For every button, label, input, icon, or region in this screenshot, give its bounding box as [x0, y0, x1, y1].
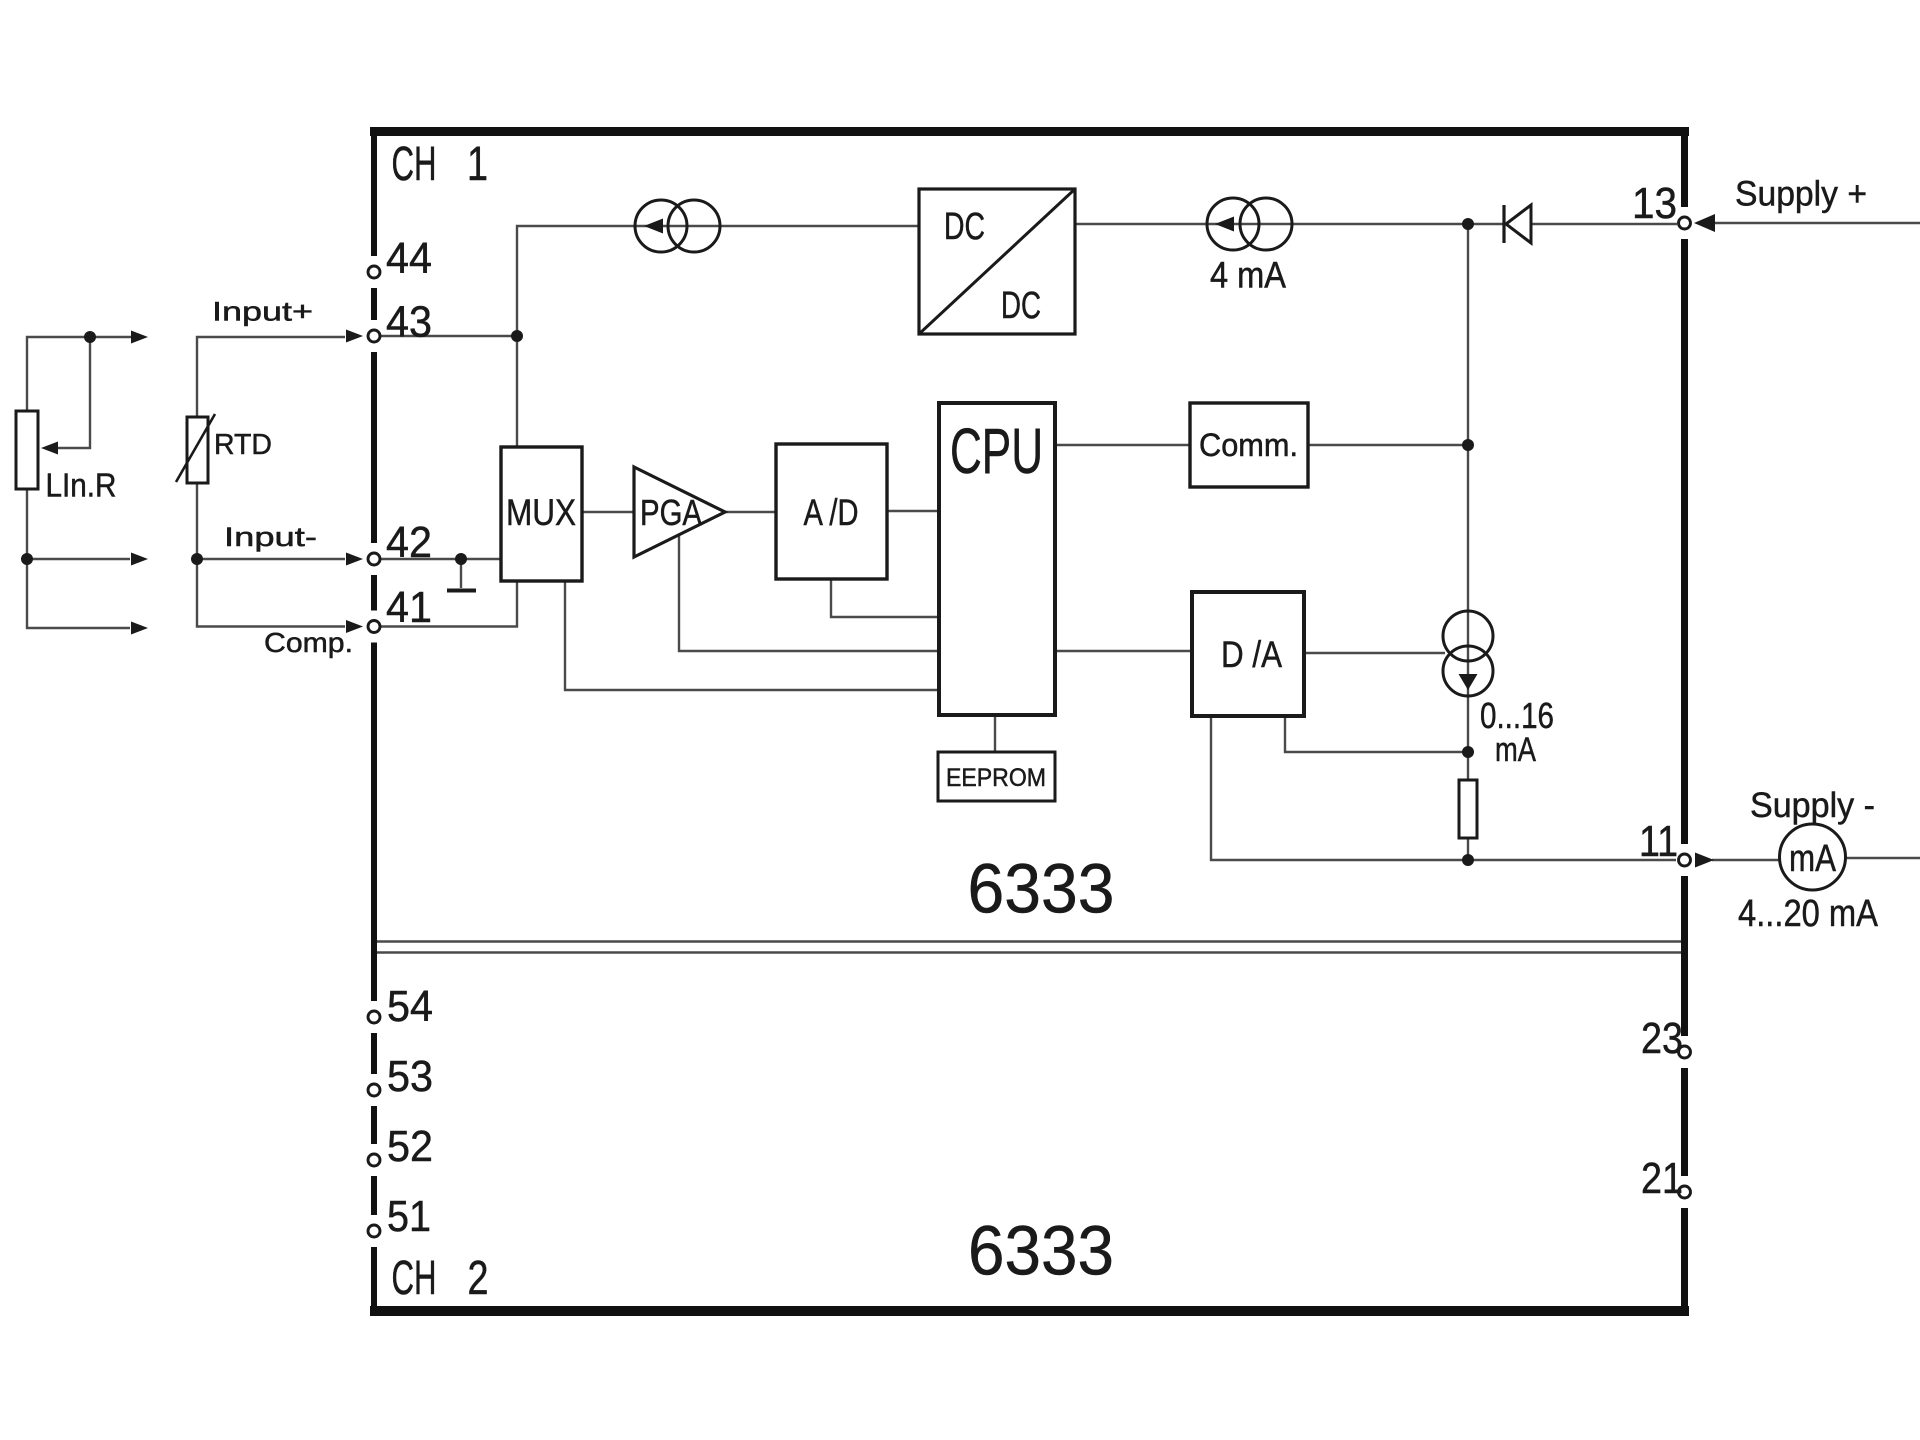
svg-text:mA: mA [1495, 731, 1536, 769]
svg-text:42: 42 [386, 518, 432, 567]
svg-text:44: 44 [386, 234, 432, 283]
svg-text:21: 21 [1641, 1154, 1683, 1203]
svg-text:DC: DC [1001, 285, 1041, 327]
svg-text:mA: mA [1789, 838, 1837, 880]
svg-text:Input+: Input+ [212, 297, 313, 327]
svg-text:41: 41 [386, 583, 432, 632]
svg-text:D /A: D /A [1221, 634, 1282, 675]
svg-text:Input-: Input- [224, 522, 317, 552]
svg-text:EEPROM: EEPROM [946, 764, 1046, 792]
svg-text:51: 51 [387, 1192, 431, 1241]
svg-text:A /D: A /D [804, 492, 859, 533]
svg-text:52: 52 [387, 1122, 433, 1171]
svg-text:4 mA: 4 mA [1210, 255, 1286, 296]
svg-text:2: 2 [468, 1252, 489, 1305]
svg-text:6333: 6333 [968, 1212, 1114, 1290]
svg-text:6333: 6333 [968, 850, 1115, 928]
svg-text:RTD: RTD [214, 429, 272, 461]
svg-text:1: 1 [467, 138, 488, 191]
svg-text:23: 23 [1641, 1014, 1683, 1063]
svg-text:0...16: 0...16 [1480, 695, 1554, 736]
svg-text:54: 54 [387, 982, 433, 1031]
svg-text:MUX: MUX [506, 492, 576, 533]
svg-text:53: 53 [387, 1052, 433, 1101]
svg-text:DC: DC [944, 206, 985, 248]
svg-text:11: 11 [1639, 817, 1678, 866]
svg-text:CH: CH [392, 1252, 437, 1305]
svg-text:CH: CH [392, 138, 437, 191]
svg-text:Supply +: Supply + [1735, 175, 1867, 214]
svg-text:4...20 mA: 4...20 mA [1738, 893, 1879, 935]
svg-text:13: 13 [1632, 179, 1677, 228]
svg-text:Comm.: Comm. [1199, 427, 1298, 463]
svg-text:PGA: PGA [640, 492, 702, 533]
svg-text:43: 43 [386, 298, 432, 347]
svg-text:Comp.: Comp. [264, 627, 353, 658]
svg-text:Supply -: Supply - [1750, 786, 1875, 825]
svg-text:LIn.R: LIn.R [46, 467, 117, 504]
svg-text:CPU: CPU [950, 415, 1043, 487]
